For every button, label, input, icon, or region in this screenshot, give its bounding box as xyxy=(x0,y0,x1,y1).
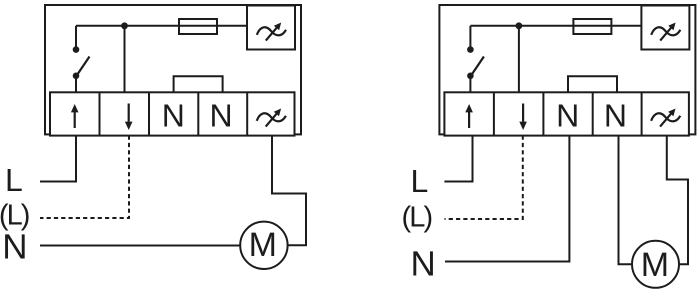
wire: top horizontal feed (right unit) xyxy=(470,25,641,27)
terminal divider 4-5 xyxy=(246,92,248,135)
terminal divider 1-2 (right) xyxy=(493,92,495,135)
wire: switch pivot to terminal 1 xyxy=(75,76,77,93)
terminal 1 symbol: up arrow xyxy=(71,104,79,128)
svg-text:N: N xyxy=(209,98,232,134)
wire: terminal 2 down to (L), dashed xyxy=(40,136,129,218)
svg-text:N: N xyxy=(162,98,185,134)
N-N bridge link (right unit) xyxy=(568,76,617,92)
terminal divider 4-5 (right) xyxy=(641,92,643,135)
wire: riser to switch fixed contact xyxy=(75,26,77,49)
wire: junction down to terminal 2 (right) xyxy=(518,26,520,93)
switch S2 pivot dot xyxy=(467,73,474,80)
wire: terminal 1 down to L xyxy=(40,136,76,182)
fuse F1 xyxy=(179,19,217,34)
svg-text:M: M xyxy=(249,226,277,264)
speed controller box U1 xyxy=(247,6,295,50)
N-N bridge link (left unit) xyxy=(174,76,223,92)
terminal 2 symbol: down arrow (right) xyxy=(519,104,527,131)
svg-text:N: N xyxy=(411,245,436,284)
terminal divider 3-4 (right) xyxy=(592,92,594,135)
motor M1 circle xyxy=(240,222,287,269)
speed controller symbol in U2 xyxy=(651,23,680,41)
switch S1 fixed contact dot xyxy=(73,46,80,53)
svg-text:(L): (L) xyxy=(402,202,432,234)
svg-text:M: M xyxy=(641,246,669,284)
device outline (left unit) xyxy=(45,5,301,134)
wire: terminal 2 down to (L), dashed (right) xyxy=(445,136,523,219)
terminal divider 3-4 xyxy=(197,92,199,135)
node: junction dot on top feed (right) xyxy=(516,22,523,29)
wire: riser to switch fixed contact (right) xyxy=(469,26,471,49)
wire: junction down to terminal 2 xyxy=(124,26,126,93)
device outline (right unit) xyxy=(439,5,695,134)
wire: N feed to motor (left unit) xyxy=(40,245,240,247)
switch S2 fixed contact dot xyxy=(467,46,474,53)
wire: N feed up to terminal 3 (right) xyxy=(445,136,569,262)
terminal 2 symbol: down arrow xyxy=(125,104,133,131)
terminal row box (left unit) xyxy=(50,92,295,135)
terminal row box (right unit) xyxy=(444,92,689,135)
terminal divider 2-3 xyxy=(148,92,150,135)
svg-text:L: L xyxy=(411,163,429,199)
speed controller box U2 xyxy=(641,6,689,50)
terminal 1 symbol: up arrow (right) xyxy=(465,104,473,128)
wire: terminal 1 down to L (right) xyxy=(444,136,472,182)
wire: switch pivot to terminal 1 (right) xyxy=(469,76,471,93)
terminal 5 symbol: speed regulator xyxy=(257,109,286,127)
svg-text:N: N xyxy=(604,98,627,134)
terminal divider 1-2 xyxy=(99,92,101,135)
svg-text:N: N xyxy=(2,228,27,267)
terminal 5 symbol: speed regulator (right) xyxy=(651,109,680,127)
fuse F2 xyxy=(573,19,611,34)
node: junction dot on top feed xyxy=(121,22,128,29)
wire: terminal 5 down to motor M2 right side xyxy=(667,136,688,265)
svg-text:N: N xyxy=(556,98,579,134)
motor M2 circle xyxy=(632,241,679,288)
switch S2 blade (open) xyxy=(471,57,484,76)
switch S1 pivot dot xyxy=(73,73,80,80)
wire: motor M1 to terminal 5 xyxy=(272,136,306,246)
svg-text:L: L xyxy=(5,162,23,198)
terminal divider 2-3 (right) xyxy=(542,92,544,135)
wire: top horizontal feed (left unit) xyxy=(76,25,247,27)
switch S1 blade (open) xyxy=(77,57,90,76)
speed controller symbol in U1 xyxy=(257,23,286,41)
wire: terminal 4 down to motor M2 left side xyxy=(619,136,633,265)
